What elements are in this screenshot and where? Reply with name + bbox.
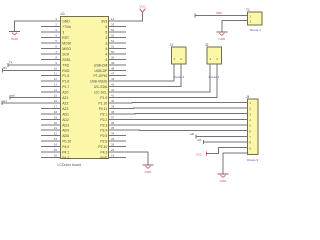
svg-text:38: 38 xyxy=(111,110,115,114)
wire net TX xyxy=(8,63,61,67)
svg-text:I2C-SDA: I2C-SDA xyxy=(94,85,108,89)
svg-text:P1.9: P1.9 xyxy=(100,96,107,100)
svg-text:37: 37 xyxy=(111,115,115,119)
wire J4 pin10 to ground xyxy=(223,153,248,173)
ground GND4 xyxy=(218,174,229,183)
U1 right pin stubs xyxy=(109,27,127,158)
wire bus U1 to J4 pin4 xyxy=(109,118,248,120)
svg-text:P1.7: P1.7 xyxy=(62,85,69,89)
svg-text:4: 4 xyxy=(105,58,107,62)
wire U1 pin14 to VCC xyxy=(109,12,143,21)
svg-text:I2C-SCL: I2C-SCL xyxy=(94,91,107,95)
svg-text:Route 1: Route 1 xyxy=(209,75,220,79)
svg-text:51: 51 xyxy=(111,39,115,43)
svg-text:40: 40 xyxy=(111,99,115,103)
svg-text:U1: U1 xyxy=(61,12,65,16)
svg-text:15: 15 xyxy=(54,94,58,98)
net label TX xyxy=(9,61,13,65)
svg-text:17: 17 xyxy=(54,104,58,108)
svg-text:A22: A22 xyxy=(62,101,68,105)
svg-text:10: 10 xyxy=(54,66,58,70)
svg-text:AD1: AD1 xyxy=(62,112,69,116)
U1 right pin names xyxy=(90,20,108,160)
wire U1 to J2 pin2 xyxy=(109,64,218,98)
svg-text:wi1: wi1 xyxy=(197,138,202,142)
svg-text:3: 3 xyxy=(105,36,107,40)
svg-text:AD3: AD3 xyxy=(62,123,69,127)
svg-text:A23: A23 xyxy=(62,107,68,111)
svg-text:AD4: AD4 xyxy=(62,129,69,133)
connector J1 xyxy=(170,43,186,64)
svg-text:+7Vin: +7Vin xyxy=(62,25,71,29)
svg-text:44: 44 xyxy=(111,88,115,92)
svg-text:35: 35 xyxy=(111,126,115,130)
label Route 2 under J1 xyxy=(173,75,184,79)
svg-text:36: 36 xyxy=(111,121,115,125)
power VCC symbol top xyxy=(139,4,146,12)
svg-text:A20: A20 xyxy=(62,91,68,95)
U1 right pin numbers xyxy=(111,17,115,157)
svg-text:J2: J2 xyxy=(205,43,209,47)
svg-text:4: 4 xyxy=(105,47,107,51)
svg-text:11: 11 xyxy=(54,72,57,76)
svg-text:USB-DM: USB-DM xyxy=(94,63,108,67)
wire U1 to J1 pin1 xyxy=(109,64,175,81)
svg-text:P4.1: P4.1 xyxy=(62,151,69,155)
svg-text:MOSI: MOSI xyxy=(62,42,71,46)
IC U1 body xyxy=(61,17,109,159)
wire U1 pin1 to ground xyxy=(15,21,61,31)
svg-text:16: 16 xyxy=(54,99,58,103)
svg-text:14: 14 xyxy=(111,17,115,21)
svg-text:3: 3 xyxy=(105,42,107,46)
svg-text:GND: GND xyxy=(218,37,226,41)
svg-text:23: 23 xyxy=(54,137,58,141)
svg-text:P4.2: P4.2 xyxy=(62,156,69,160)
svg-text:41: 41 xyxy=(111,94,115,98)
svg-text:VCC: VCC xyxy=(139,4,146,8)
net label RX xyxy=(3,66,7,70)
net label wi1 right xyxy=(197,138,202,142)
U1 reference designator xyxy=(61,12,65,16)
svg-text:49: 49 xyxy=(111,61,115,65)
svg-text:47: 47 xyxy=(111,72,115,76)
wire bus U1 to J4 pin2 xyxy=(109,107,248,109)
svg-text:33: 33 xyxy=(111,23,115,27)
svg-text:Route 1: Route 1 xyxy=(250,28,261,32)
svg-text:MISO: MISO xyxy=(62,47,71,51)
svg-text:P1.5: P1.5 xyxy=(62,74,69,78)
svg-text:P0.10: P0.10 xyxy=(62,140,71,144)
U1 left pin names xyxy=(62,20,71,160)
svg-text:21: 21 xyxy=(54,126,58,130)
wire net wi1 to J4 pin8 xyxy=(204,140,248,144)
svg-text:P0.11: P0.11 xyxy=(99,107,108,111)
net label VBat xyxy=(216,11,222,15)
svg-text:26: 26 xyxy=(54,153,58,157)
ground GND3 xyxy=(143,165,154,174)
svg-text:RX: RX xyxy=(3,66,7,70)
svg-text:GND: GND xyxy=(11,37,19,41)
svg-text:28: 28 xyxy=(111,143,115,147)
svg-text:PT-GPIO: PT-GPIO xyxy=(94,74,108,78)
connector J4 xyxy=(246,95,258,155)
net label wi0 left xyxy=(11,93,16,97)
ground GND2 xyxy=(216,32,227,41)
svg-text:50: 50 xyxy=(111,50,115,54)
svg-text:GND: GND xyxy=(62,20,70,24)
svg-text:P2.4: P2.4 xyxy=(100,129,107,133)
label Route 1 under J2 xyxy=(209,75,220,79)
svg-text:25: 25 xyxy=(54,148,58,152)
svg-text:RXD: RXD xyxy=(62,69,70,73)
svg-text:13: 13 xyxy=(54,83,58,87)
power label VCC right xyxy=(196,153,202,157)
svg-text:39: 39 xyxy=(111,104,115,108)
wire U1 P4.1 to ground xyxy=(109,152,149,165)
wire net RX xyxy=(3,68,61,72)
svg-text:18: 18 xyxy=(54,110,58,114)
U1 left pin numbers xyxy=(54,17,58,157)
svg-text:52: 52 xyxy=(111,28,115,32)
connector T1 xyxy=(246,8,262,25)
svg-text:P4.3: P4.3 xyxy=(100,151,107,155)
svg-text:29: 29 xyxy=(111,137,115,141)
svg-text:3V3: 3V3 xyxy=(101,20,107,24)
svg-text:19: 19 xyxy=(54,115,58,119)
wire net wi0 left xyxy=(10,96,61,100)
svg-text:TXD: TXD xyxy=(62,63,69,67)
svg-text:48: 48 xyxy=(111,66,115,70)
svg-text:J4: J4 xyxy=(246,95,250,99)
svg-text:A21: A21 xyxy=(62,96,68,100)
svg-text:34: 34 xyxy=(111,132,115,136)
svg-text:P2.10: P2.10 xyxy=(98,145,107,149)
svg-text:24: 24 xyxy=(54,143,58,147)
svg-text:wi0: wi0 xyxy=(190,132,195,136)
svg-text:wi0: wi0 xyxy=(11,93,16,97)
wire U1 to J2 pin1 xyxy=(109,64,211,92)
svg-text:TX: TX xyxy=(9,61,13,65)
svg-text:P2.1: P2.1 xyxy=(100,112,107,116)
svg-text:32: 32 xyxy=(111,34,115,38)
wire bus U1 to J4 pin5 xyxy=(109,124,248,126)
svg-text:P4.0: P4.0 xyxy=(62,145,69,149)
svg-text:P2.5: P2.5 xyxy=(100,134,107,138)
svg-text:GND: GND xyxy=(100,156,108,160)
svg-text:AD5: AD5 xyxy=(62,134,69,138)
U1 left pin stubs xyxy=(41,27,61,158)
svg-text:T1: T1 xyxy=(246,8,250,12)
wire bus U1 to J4 pin1 xyxy=(109,101,248,104)
svg-text:J1: J1 xyxy=(170,43,174,47)
wire net wi1 left xyxy=(2,101,61,105)
wire bus U1 to J4 pin6 xyxy=(109,129,248,131)
wire bus U1 to J4 pin3 xyxy=(109,113,248,115)
svg-text:Route 2: Route 2 xyxy=(173,75,184,79)
svg-text:LCDuino board: LCDuino board xyxy=(58,163,82,167)
svg-text:12: 12 xyxy=(54,77,58,81)
svg-text:14: 14 xyxy=(54,88,58,92)
svg-text:USB-DP: USB-DP xyxy=(94,69,108,73)
svg-text:RST: RST xyxy=(62,36,69,40)
wire T1 pin2 to ground xyxy=(222,21,248,32)
ground GND1 xyxy=(9,32,20,42)
label Route 9 under J4 xyxy=(247,158,258,162)
svg-text:30: 30 xyxy=(111,55,115,59)
svg-text:5: 5 xyxy=(105,25,107,29)
svg-text:18: 18 xyxy=(111,153,115,157)
svg-text:5: 5 xyxy=(105,31,107,35)
svg-text:P2.2: P2.2 xyxy=(100,118,107,122)
svg-text:23: 23 xyxy=(111,148,115,152)
svg-text:USB-VBUS: USB-VBUS xyxy=(90,80,108,84)
svg-text:31: 31 xyxy=(111,44,115,48)
net label wi0 right xyxy=(190,132,195,136)
wire VCC to J4 pin9 xyxy=(207,148,248,156)
svg-text:VBat: VBat xyxy=(216,11,222,15)
wire net wi0 to J4 pin7 xyxy=(196,134,248,138)
svg-text:43: 43 xyxy=(111,77,115,81)
svg-text:wi1: wi1 xyxy=(3,99,8,103)
svg-text:Route 9: Route 9 xyxy=(247,158,258,162)
svg-text:P2.9: P2.9 xyxy=(100,140,107,144)
svg-text:20: 20 xyxy=(54,121,58,125)
U1 value label LCDuino board xyxy=(58,163,82,167)
svg-text:SCK: SCK xyxy=(62,52,70,56)
svg-text:GND: GND xyxy=(145,170,153,174)
svg-text:GND: GND xyxy=(220,179,228,183)
svg-text:42: 42 xyxy=(111,83,115,87)
wire T1 pin1 (VBat net) xyxy=(195,14,248,18)
svg-text:P1.10: P1.10 xyxy=(98,101,107,105)
svg-text:4: 4 xyxy=(105,52,107,56)
svg-text:3: 3 xyxy=(62,31,64,35)
net label wi1 left xyxy=(3,99,8,103)
svg-text:SSEL: SSEL xyxy=(62,58,71,62)
svg-text:P2.3: P2.3 xyxy=(100,123,107,127)
wire U1 to J1 pin2 xyxy=(109,64,182,87)
svg-text:VCC: VCC xyxy=(196,153,202,157)
connector J2 xyxy=(205,43,221,64)
svg-text:P1.6: P1.6 xyxy=(62,80,69,84)
svg-text:22: 22 xyxy=(54,132,58,136)
label Route 1 under T1 xyxy=(250,28,261,32)
svg-text:AD2: AD2 xyxy=(62,118,69,122)
